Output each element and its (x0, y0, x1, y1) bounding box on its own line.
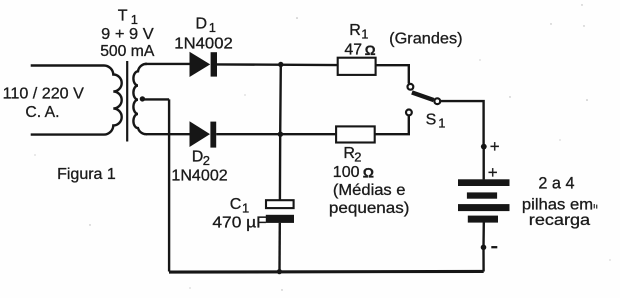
svg-text:1: 1 (361, 26, 368, 41)
junction dot C1 at bottom rail (277, 269, 282, 274)
switch S1 lever (412, 92, 434, 100)
junction dot battery minus terminal (481, 245, 487, 251)
svg-text:pilhas em: pilhas em (522, 196, 593, 213)
switch S1 common pole contact (434, 98, 440, 104)
wire switch lower throw down to R2 (375, 116, 409, 135)
wire R1 to switch top throw (376, 65, 409, 83)
svg-text:500 mA: 500 mA (100, 43, 155, 60)
wire secondary top to D1 anode (145, 63, 190, 65)
wire bottom rail (169, 270, 484, 274)
transformer T1 core (126, 61, 128, 142)
svg-text:1N4002: 1N4002 (174, 35, 233, 52)
svg-text:2: 2 (203, 153, 210, 168)
svg-text:D: D (192, 149, 204, 166)
wire node bus vertical from D1 output to C1 (279, 65, 282, 201)
wire switch common to battery plus terminal (440, 101, 483, 147)
svg-text:R: R (349, 22, 361, 39)
diode D1 (190, 52, 218, 77)
svg-text:S: S (426, 112, 437, 129)
svg-text:47: 47 (344, 42, 362, 59)
svg-text:(Médias e: (Médias e (333, 182, 406, 199)
battery cell bar 3 (long) (458, 204, 510, 211)
svg-text:R: R (343, 145, 355, 162)
resistor R1 body (338, 58, 376, 75)
wire battery bottom bar to minus dot to rail (482, 223, 485, 272)
transformer T1 secondary winding (133, 64, 147, 134)
svg-text:Ω: Ω (365, 43, 376, 58)
transformer T1 primary winding with input wires (31, 66, 122, 135)
wire center tap vertical down to rail (168, 99, 170, 271)
svg-text:2: 2 (354, 149, 361, 164)
svg-text:Ω: Ω (363, 164, 374, 180)
svg-text:470 µF: 470 µF (212, 215, 267, 232)
junction dot transformer center tap (140, 96, 145, 101)
wire secondary bottom to D2 anode (146, 133, 190, 135)
battery cell bar 4 (short) (468, 216, 498, 223)
svg-text:110 / 220 V: 110 / 220 V (3, 85, 85, 102)
label small mark after em (594, 204, 596, 209)
svg-text:1: 1 (438, 116, 445, 131)
capacitor C1 bottom plate (266, 215, 294, 223)
svg-text:pequenas): pequenas) (329, 200, 410, 217)
svg-text:T: T (118, 7, 128, 24)
svg-text:1: 1 (242, 201, 249, 216)
svg-text:+: + (490, 137, 500, 156)
switch S1 top throw contact (408, 84, 414, 90)
svg-text:1N4002: 1N4002 (171, 168, 227, 185)
svg-text:C. A.: C. A. (25, 104, 59, 121)
label minus below battery (491, 246, 497, 248)
svg-text:+: + (488, 163, 498, 182)
svg-text:Figura 1: Figura 1 (57, 166, 116, 183)
svg-text:2 a 4: 2 a 4 (538, 174, 574, 193)
svg-text:1: 1 (209, 20, 216, 35)
junction dot battery plus terminal (481, 144, 487, 150)
battery cell bar 2 (short) (467, 192, 497, 198)
svg-text:100: 100 (333, 164, 360, 181)
capacitor C1 top plate (266, 200, 294, 208)
svg-text:(Grandes): (Grandes) (389, 30, 462, 47)
wire C1 bottom plate to bottom rail (278, 223, 281, 272)
junction dot node D1 output (278, 62, 283, 67)
junction dot node D2 output (278, 132, 283, 137)
diode D2 (190, 121, 217, 147)
wire D2 cathode to R2 (216, 133, 336, 135)
wire battery plus dot to battery top bar (483, 147, 485, 180)
wire D1 cathode to R1 (217, 63, 338, 66)
svg-text:recarga: recarga (529, 212, 590, 229)
svg-text:D: D (196, 15, 208, 32)
resistor R2 body (336, 126, 375, 142)
svg-text:1: 1 (131, 12, 138, 27)
svg-text:C: C (230, 196, 242, 213)
battery cell bar 1 (long) (458, 179, 510, 186)
switch S1 lower throw contact (406, 110, 412, 116)
svg-text:9 + 9 V: 9 + 9 V (101, 26, 154, 43)
wire center tap to corner (142, 98, 169, 100)
